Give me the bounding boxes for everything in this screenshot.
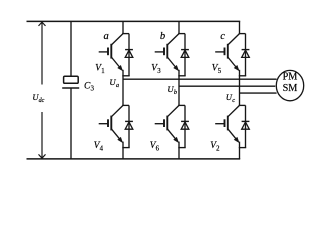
transistor V1 (IGBT) <box>99 34 123 72</box>
wire: phase b output line to motor <box>179 85 275 87</box>
capacitor C3 positive plate (rectangle) <box>64 76 79 83</box>
wire: phase c output line to motor <box>240 92 277 94</box>
wire: phase a lower cell top connector <box>122 104 129 106</box>
wire: capacitor bottom lead <box>70 88 72 159</box>
wire: leg a bottom vertical to bottom rail <box>122 142 124 159</box>
wire: leg c midpoint vertical <box>239 70 241 106</box>
wire: phase b upper cell bottom connector <box>178 75 185 77</box>
diode D5 (antiparallel) <box>242 34 250 76</box>
svg-text:b: b <box>160 31 165 42</box>
transistor V6 (IGBT) <box>155 105 179 143</box>
wire: leg c bottom vertical to bottom rail <box>239 142 241 159</box>
wire: leg b bottom vertical to bottom rail <box>178 142 180 159</box>
arrowhead down (Udc at bottom rail) <box>39 154 46 158</box>
wire: bottom DC bus rail <box>27 158 241 160</box>
svg-text:c: c <box>220 31 225 42</box>
svg-text:a: a <box>104 31 109 42</box>
wire: phase c lower cell bottom connector <box>239 147 246 149</box>
diode D1 (antiparallel) <box>125 34 133 76</box>
transistor V5 (IGBT) <box>215 34 239 72</box>
wire: phase c lower cell top connector <box>239 104 246 106</box>
svg-text:SM: SM <box>283 83 298 94</box>
transistor V2 (IGBT) <box>215 105 239 143</box>
wire: phase b lower cell top connector <box>178 104 185 106</box>
diode D3 (antiparallel) <box>181 34 189 76</box>
wire: phase b lower cell bottom connector <box>178 147 185 149</box>
wire: phase c upper cell bottom connector <box>239 75 246 77</box>
diode D6 (antiparallel) <box>181 105 189 147</box>
wire: leg b drop from top rail <box>178 21 180 33</box>
wire: leg a drop from top rail <box>122 21 124 33</box>
Udc measurement line (upper segment) <box>41 22 43 84</box>
wire: top DC bus rail <box>27 20 241 22</box>
wire: phase a upper cell top connector <box>122 33 129 35</box>
transistor V4 (IGBT) <box>99 105 123 143</box>
capacitor C3 negative plate <box>62 87 79 89</box>
wire: phase a lower cell bottom connector <box>122 147 129 149</box>
Udc measurement line (lower segment) <box>41 112 43 158</box>
arrowhead up (Udc at top rail) <box>39 22 46 26</box>
wire: phase a output line to motor <box>123 78 277 80</box>
wire: leg b midpoint vertical <box>178 70 180 106</box>
wire: leg c drop from top rail <box>239 21 241 33</box>
wire: leg a midpoint vertical <box>122 70 124 106</box>
diode D4 (antiparallel) <box>125 105 133 147</box>
wire: phase b upper cell top connector <box>178 33 185 35</box>
wire: phase c upper cell top connector <box>239 33 246 35</box>
svg-text:PM: PM <box>283 72 298 83</box>
transistor V3 (IGBT) <box>155 34 179 72</box>
motor M1 (PMSM) circle <box>276 70 303 100</box>
wire: capacitor top lead <box>70 21 72 76</box>
diode D2 (antiparallel) <box>242 105 250 147</box>
wire: phase a upper cell bottom connector <box>122 75 129 77</box>
